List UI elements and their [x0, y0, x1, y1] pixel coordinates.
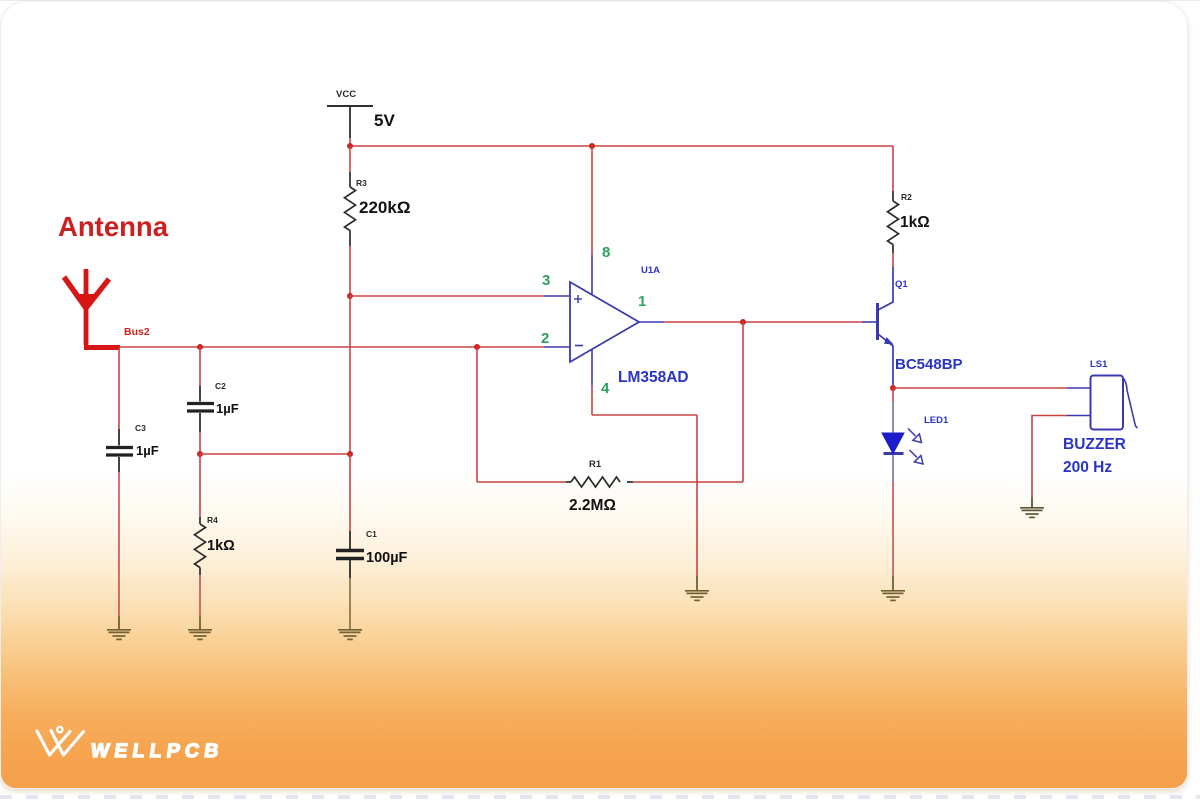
svg-text:WELLPCB: WELLPCB: [89, 740, 225, 762]
svg-text:200 Hz: 200 Hz: [1063, 459, 1112, 476]
wire pin4 horizontal: [592, 414, 697, 416]
svg-text:R4: R4: [207, 515, 218, 525]
LED emission arrows: [908, 429, 923, 465]
ground op-amp: [685, 576, 709, 600]
svg-text:3: 3: [542, 272, 550, 289]
wire C1 top lead: [349, 454, 351, 531]
svg-text:R1: R1: [589, 459, 602, 470]
node junction bus/R1: [474, 344, 480, 350]
resistor R1: [566, 477, 633, 487]
wire emitter node to buzzer: [893, 387, 1067, 389]
svg-text:LS1: LS1: [1090, 359, 1108, 370]
wire R2 top lead red: [892, 146, 894, 191]
node junction rail/R3: [347, 143, 353, 149]
svg-text:BUZZER: BUZZER: [1063, 436, 1126, 453]
buzzer lever: [1123, 378, 1138, 429]
wire pin3 blue stub: [544, 295, 570, 297]
svg-text:R2: R2: [901, 192, 912, 202]
svg-text:1kΩ: 1kΩ: [900, 214, 930, 231]
node junction bus/C2: [197, 344, 203, 350]
wire bus to C3: [118, 347, 120, 429]
svg-text:C2: C2: [215, 381, 226, 391]
wire C3 to ground: [118, 472, 120, 616]
ground buzzer: [1020, 497, 1044, 517]
transistor Q1 emitter lead: [878, 334, 893, 385]
svg-text:2.2MΩ: 2.2MΩ: [569, 497, 616, 514]
antenna symbol: [64, 269, 120, 348]
transistor Q1 base bar: [876, 303, 879, 340]
wire buzzer bottom pin blue: [1067, 415, 1090, 417]
op-amp minus sign: [575, 345, 583, 347]
wire rail to R3: [349, 146, 351, 172]
wire buzzer bottom to ground corner: [1032, 416, 1067, 498]
op-amp U1A LM358AD: [570, 282, 639, 362]
svg-text:LM358AD: LM358AD: [618, 369, 689, 386]
wire mid horizontal C2 to C1: [200, 453, 350, 455]
wire C1 to ground: [349, 578, 351, 629]
buzzer LS1 body: [1091, 376, 1124, 430]
wire base blue stub: [862, 321, 877, 323]
ground LED: [881, 576, 905, 600]
svg-text:220kΩ: 220kΩ: [359, 198, 410, 217]
wire C2 to mid node: [199, 432, 201, 454]
transistor Q1 collector lead: [878, 267, 893, 310]
svg-text:2: 2: [541, 330, 549, 347]
resistor R4: [195, 517, 206, 575]
wire bus to C2: [199, 347, 201, 386]
wire node to R4: [199, 454, 201, 517]
ground C1: [338, 630, 362, 640]
wire pin8 blue stub: [591, 255, 593, 295]
capacitor C2: [187, 386, 214, 432]
svg-text:Antenna: Antenna: [58, 211, 169, 242]
capacitor C3: [106, 429, 133, 472]
LED LED1: [882, 402, 904, 482]
wire VCC stem to rail: [349, 138, 351, 146]
ground C3: [107, 616, 131, 639]
svg-text:C1: C1: [366, 529, 377, 539]
wire R4 to ground: [199, 575, 201, 616]
resistor R2: [888, 191, 899, 253]
node junction output/R1: [740, 319, 746, 325]
wire pin4 blue stub: [591, 349, 593, 385]
svg-text:100µF: 100µF: [366, 550, 408, 566]
svg-text:1kΩ: 1kΩ: [207, 538, 235, 554]
ground R4: [188, 616, 212, 639]
node junction C2/R4/midwire: [197, 451, 203, 457]
wire output pin1 blue stub: [639, 321, 664, 323]
wire R3 down across bus to mid node: [349, 296, 351, 454]
svg-text:1µF: 1µF: [216, 401, 239, 416]
wire output node down to R1: [742, 322, 744, 482]
node junction rail/pin8: [589, 143, 595, 149]
power symbol VCC: [327, 106, 373, 138]
wire pin3 horizontal: [350, 295, 544, 297]
wire R1 left segment: [477, 481, 566, 483]
svg-text:4: 4: [601, 380, 610, 397]
node junction R3/pin3: [347, 293, 353, 299]
wire emitter node to LED: [892, 388, 894, 402]
node junction emitter/buzzer: [890, 385, 896, 391]
wire output to transistor base: [664, 321, 862, 323]
svg-text:Bus2: Bus2: [124, 326, 150, 338]
svg-text:C3: C3: [135, 423, 146, 433]
logo W icon: [37, 727, 84, 755]
wire R3 to pin3 node: [349, 246, 351, 296]
resistor R3: [345, 172, 356, 246]
wire buzzer top pin blue: [1067, 387, 1090, 389]
svg-text:BC548BP: BC548BP: [895, 356, 963, 373]
wire pin4 ground vertical: [696, 415, 698, 576]
svg-text:U1A: U1A: [641, 265, 660, 276]
wire pin2 node down to R1: [476, 347, 478, 482]
svg-text:VCC: VCC: [336, 89, 356, 100]
wire R1 right segment: [633, 481, 743, 483]
wire pin8 vertical red: [591, 146, 593, 255]
node junction midwire/C1: [347, 451, 353, 457]
svg-text:1: 1: [638, 293, 646, 310]
svg-text:LED1: LED1: [924, 415, 949, 426]
wire pin2 blue stub: [544, 346, 570, 348]
transistor Q1 emitter arrow: [884, 337, 894, 345]
op-amp plus sign: [574, 295, 582, 303]
antenna arrowhead: [78, 294, 94, 309]
svg-text:5V: 5V: [374, 111, 395, 130]
svg-text:8: 8: [602, 244, 610, 261]
svg-text:R3: R3: [356, 178, 367, 188]
wire bus horizontal: [120, 346, 544, 348]
svg-text:1µF: 1µF: [136, 443, 159, 458]
svg-text:Q1: Q1: [895, 279, 908, 290]
wire LED cathode to ground: [892, 482, 894, 576]
wire top power rail: [350, 145, 893, 147]
wire R2 to collector: [892, 253, 894, 267]
capacitor C1: [336, 531, 364, 578]
wire pin4 red down: [591, 385, 593, 415]
